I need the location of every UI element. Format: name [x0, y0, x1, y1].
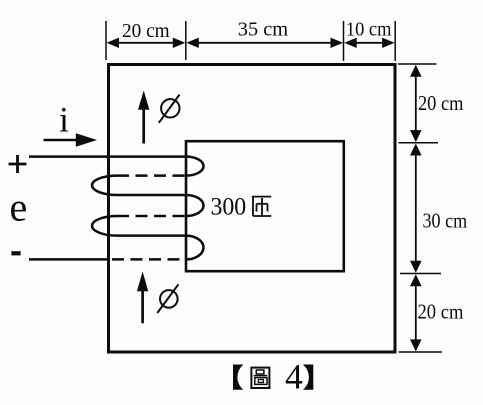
- svg-text:35 cm: 35 cm: [238, 18, 289, 40]
- svg-text:30 cm: 30 cm: [423, 209, 468, 233]
- svg-text:10 cm: 10 cm: [346, 19, 392, 41]
- svg-text:4: 4: [285, 357, 303, 397]
- svg-text:20 cm: 20 cm: [122, 20, 170, 42]
- svg-text:20 cm: 20 cm: [418, 300, 464, 324]
- svg-text:e: e: [10, 184, 28, 229]
- svg-text:300: 300: [211, 194, 247, 221]
- svg-text:i: i: [59, 100, 69, 140]
- svg-text:20 cm: 20 cm: [418, 91, 464, 115]
